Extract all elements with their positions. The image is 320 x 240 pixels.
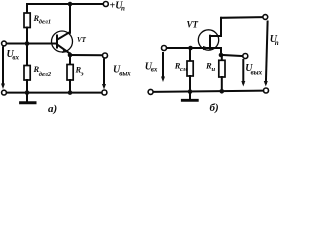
transistor VT emitter lead <box>57 45 70 54</box>
svg-text:п: п <box>121 4 125 12</box>
label Uvx circuit a <box>7 49 20 62</box>
wire: output wire circuit b <box>221 55 243 56</box>
terminal: input circuit a <box>2 41 7 46</box>
terminal +Up <box>103 2 108 7</box>
svg-text:дел2: дел2 <box>39 71 52 78</box>
wire: base wire from input terminal to transistor <box>6 43 57 45</box>
ground circuit a bar <box>21 101 35 104</box>
svg-text:VT: VT <box>187 20 199 30</box>
ground circuit b bar <box>182 99 197 102</box>
terminal: input bottom circuit b <box>148 89 153 94</box>
resistor Re <box>67 65 73 81</box>
wire: left column top segment <box>26 4 28 13</box>
transistor VT emitter arrowhead <box>62 49 69 53</box>
svg-text:б): б) <box>210 102 219 114</box>
ground circuit a stub <box>26 93 28 102</box>
resistor Rdel2 <box>24 66 30 81</box>
label Uvyx circuit a <box>113 64 131 77</box>
svg-text:дел1: дел1 <box>39 19 51 26</box>
label Ri <box>205 61 216 74</box>
wire: Rsm top segment <box>189 48 191 61</box>
resistor Ri <box>219 60 225 77</box>
terminal: output top circuit a <box>103 53 108 58</box>
label Rdel1 <box>33 13 52 26</box>
ground circuit b stub <box>189 92 191 99</box>
wire: left column mid segment <box>26 28 28 66</box>
svg-text:а): а) <box>48 103 57 115</box>
transistor VT (fet) circle <box>198 30 218 50</box>
wire: top rail circuit a <box>27 3 103 5</box>
wire: drain vertical <box>220 18 222 36</box>
arrow Uvyx circuit a <box>102 60 106 90</box>
wire: bottom rail circuit a <box>6 92 102 94</box>
transistor VT channel bar <box>209 36 211 49</box>
node: rail junction at Re <box>68 90 73 95</box>
wire: source vertical <box>220 48 222 55</box>
wire: bottom rail circuit b <box>153 91 264 92</box>
svg-text:вх: вх <box>12 54 19 62</box>
wire: left column bottom segment <box>26 80 28 93</box>
wire: Ri bottom segment <box>221 77 223 91</box>
node: source junction <box>219 53 224 58</box>
svg-text:вх: вх <box>151 66 158 74</box>
svg-text:вых: вых <box>119 70 131 78</box>
arrow Uvx circuit a <box>1 48 5 90</box>
wire: top rail circuit b <box>221 16 263 19</box>
terminal: output bottom circuit b <box>264 88 269 93</box>
terminal: +Up circuit b <box>263 15 268 20</box>
terminal: input bottom circuit a <box>2 90 7 95</box>
wire: Re bottom segment <box>69 80 71 93</box>
svg-text:п: п <box>275 39 279 47</box>
node: rail junction at Ri <box>220 89 225 94</box>
wire: output wire circuit a <box>70 54 103 56</box>
svg-text:VT: VT <box>77 36 87 44</box>
svg-text:э: э <box>80 71 84 78</box>
svg-text:и: и <box>212 66 216 73</box>
label Rsm <box>174 61 188 74</box>
label +Up <box>110 0 126 12</box>
arrow Uvyx circuit b <box>241 60 245 87</box>
arrow Up circuit b <box>264 22 268 87</box>
wire: Rsm bottom segment <box>189 76 191 92</box>
wire: emitter vertical <box>69 53 71 64</box>
label Uvyx circuit b <box>245 63 262 77</box>
wire: collector vertical <box>69 4 71 33</box>
terminal: output circuit b <box>243 54 248 59</box>
svg-text:см: см <box>180 66 188 73</box>
label Uvx circuit b <box>145 61 158 73</box>
label Up circuit b <box>270 34 279 47</box>
transistor VT collector lead <box>57 32 69 39</box>
transistor VT (bjt) circle <box>52 31 73 52</box>
wire: gate wire <box>167 47 210 49</box>
transistor VT base bar <box>56 36 58 48</box>
terminal: input circuit b <box>162 46 167 51</box>
node: rail junction at Rsm <box>188 89 193 94</box>
transistor VT source lead <box>210 47 221 49</box>
node: rail junction at divider <box>25 90 30 95</box>
transistor VT gate arrowhead <box>203 46 209 50</box>
label Rdel2 <box>33 64 52 78</box>
resistor Rsm <box>187 61 193 76</box>
resistor Rdel1 <box>24 13 30 28</box>
wire: Ri top segment <box>221 55 223 60</box>
node: base junction <box>25 41 30 46</box>
terminal: output bottom circuit a <box>102 90 107 95</box>
node: collector junction on top rail <box>68 2 73 7</box>
node: emitter junction <box>68 53 73 58</box>
label Re <box>75 65 84 78</box>
node: gate junction <box>188 46 193 51</box>
arrow Uvx circuit b <box>161 53 165 82</box>
transistor VT drain lead <box>210 35 221 37</box>
svg-text:вых: вых <box>251 69 263 77</box>
